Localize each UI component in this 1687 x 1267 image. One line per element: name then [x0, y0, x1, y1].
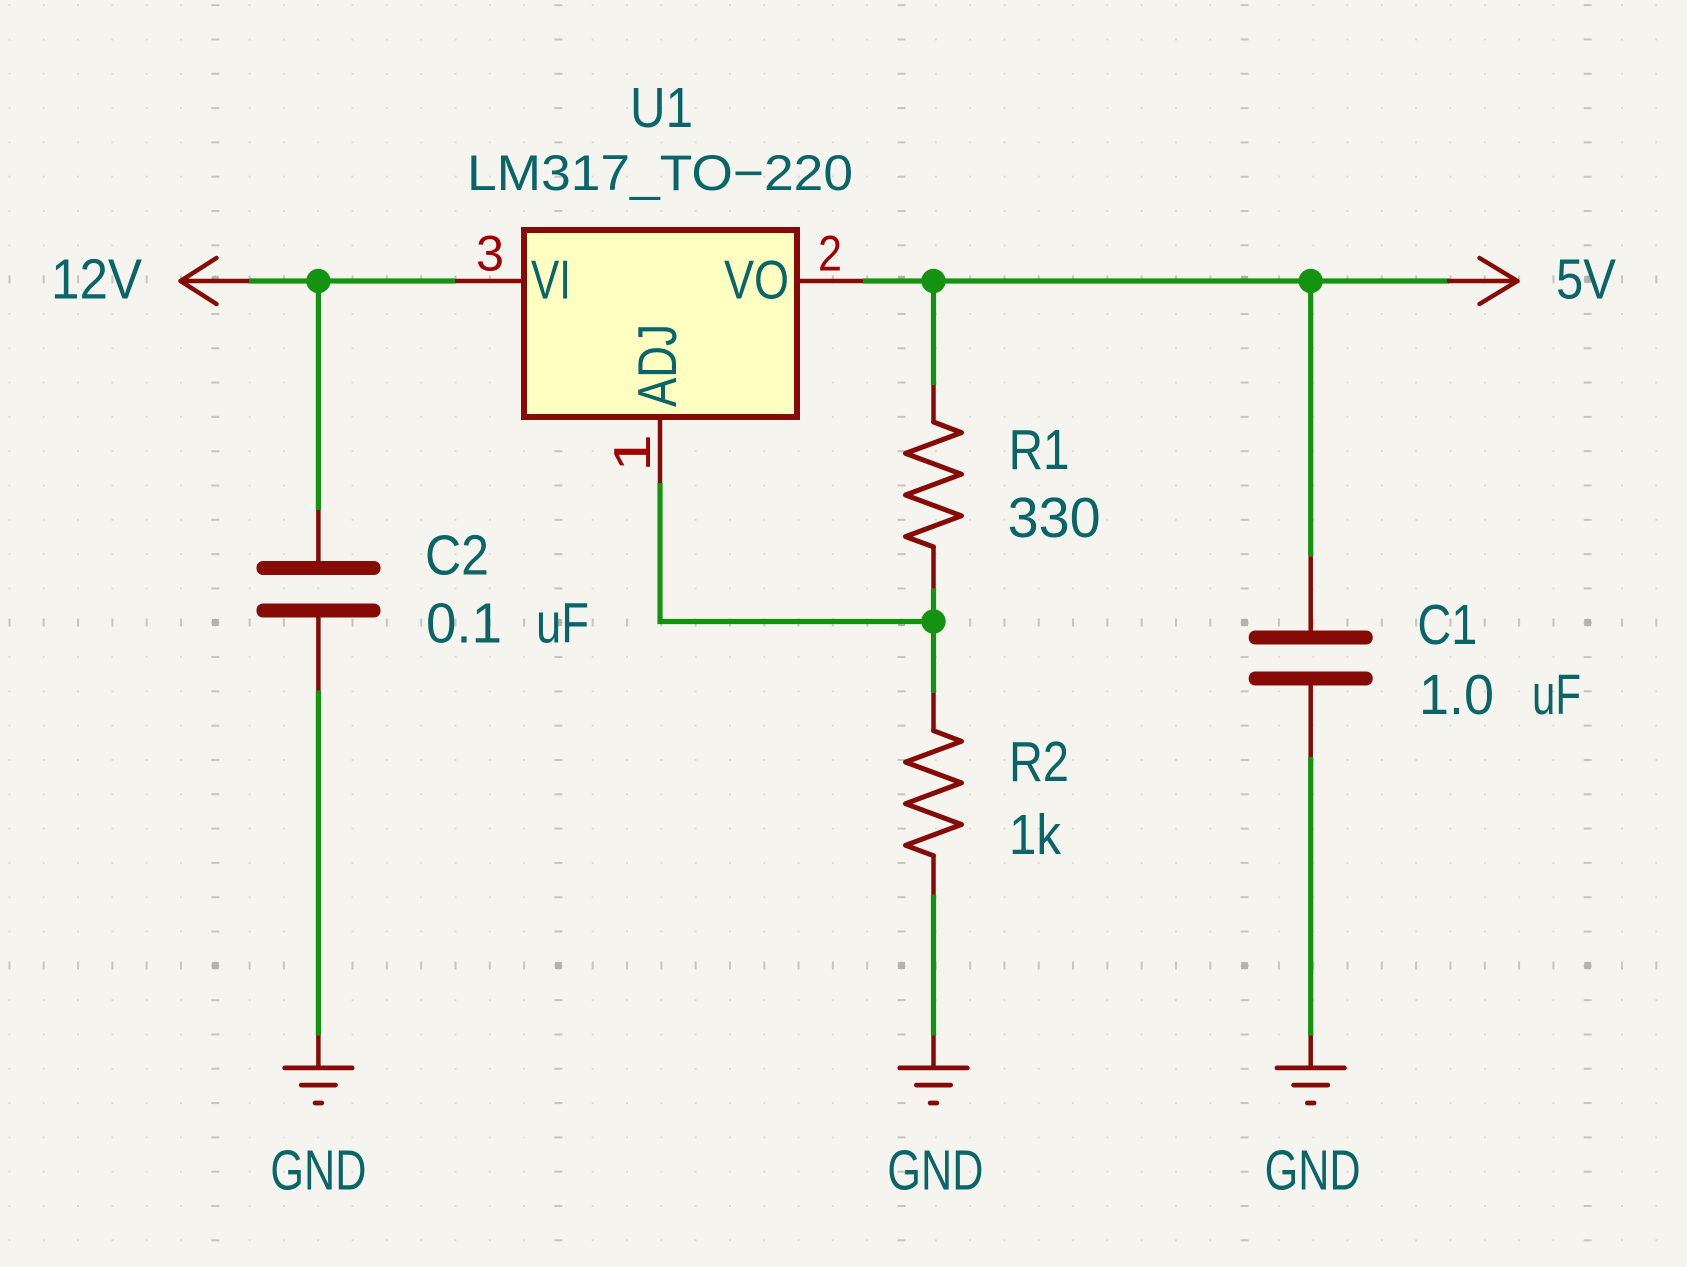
wire junction to C1 — [1308, 281, 1313, 556]
junction at ADJ node — [921, 609, 945, 633]
svg-text:LM317_TO−220: LM317_TO−220 — [467, 145, 853, 201]
ground symbol PWR01 (left) — [285, 1036, 352, 1104]
junction at C1 tap — [1299, 269, 1323, 293]
svg-text:C2: C2 — [425, 524, 489, 588]
resistor R1 — [906, 385, 962, 589]
svg-text:5V: 5V — [1556, 248, 1616, 312]
pin 2 VO — [724, 226, 863, 311]
svg-text:330: 330 — [1008, 486, 1101, 550]
junction at R1 tap — [921, 269, 945, 293]
svg-text:2: 2 — [818, 226, 842, 282]
svg-text:VO: VO — [724, 249, 789, 311]
svg-text:1: 1 — [604, 434, 662, 472]
pin 1 ADJ — [604, 324, 688, 483]
wire junction to R1 — [931, 281, 936, 385]
svg-text:GND: GND — [887, 1139, 983, 1203]
wire R1 to ADJ node — [931, 589, 936, 622]
capacitor C2 — [257, 510, 381, 691]
svg-text:12V: 12V — [51, 248, 142, 312]
pin 3 VI — [455, 226, 571, 311]
svg-text:uF: uF — [1532, 663, 1581, 727]
svg-text:VI: VI — [531, 249, 571, 311]
svg-text:R1: R1 — [1009, 418, 1070, 482]
svg-text:R2: R2 — [1009, 730, 1069, 794]
junction at C2 tap — [306, 269, 330, 293]
svg-text:1k: 1k — [1009, 803, 1061, 867]
ground symbol PWR03 (right) — [1277, 1036, 1344, 1104]
resistor R2 — [906, 693, 962, 895]
svg-text:U1: U1 — [630, 76, 693, 140]
svg-text:GND: GND — [270, 1139, 366, 1203]
svg-text:ADJ: ADJ — [626, 324, 688, 407]
capacitor C1 — [1249, 556, 1373, 757]
wire VO to 5V — [863, 278, 1449, 283]
svg-text:0.1: 0.1 — [426, 592, 502, 656]
svg-text:1.0: 1.0 — [1419, 663, 1494, 727]
svg-text:uF: uF — [536, 592, 589, 656]
wire C1 to GND — [1308, 757, 1313, 1036]
wire ADJ pin to node — [660, 483, 934, 622]
hierarchical label 5V — [1449, 248, 1616, 312]
svg-text:C1: C1 — [1417, 593, 1477, 657]
wire junction to C2 — [316, 281, 321, 510]
regulator U1 body — [524, 230, 797, 417]
wire 12V to VI pin — [249, 278, 455, 283]
wire node to R2 — [931, 622, 936, 693]
wire C2 to GND — [316, 691, 321, 1036]
ground symbol PWR02 (middle) — [900, 1036, 967, 1104]
svg-text:GND: GND — [1265, 1139, 1361, 1203]
wire R2 to GND — [931, 895, 936, 1036]
svg-text:3: 3 — [476, 226, 504, 282]
hierarchical label 12V — [51, 248, 249, 312]
